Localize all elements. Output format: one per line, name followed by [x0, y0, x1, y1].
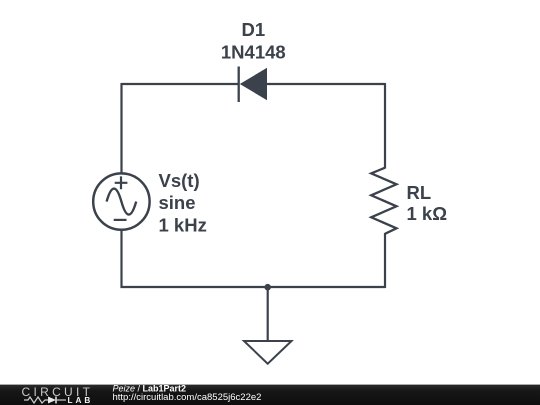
ground stem wire: [267, 287, 269, 341]
wire left vertical upper: [120, 83, 122, 173]
wire left vertical lower: [120, 230, 122, 288]
svg-text:Vs(t): Vs(t): [159, 170, 200, 191]
diode D1 cathode bar: [238, 67, 240, 103]
svg-text:1 kHz: 1 kHz: [159, 215, 207, 236]
wire top-right horizontal: [267, 83, 386, 85]
wire right vertical lower: [384, 233, 386, 288]
junction dot node: [264, 284, 271, 291]
svg-text:1N4148: 1N4148: [221, 42, 286, 63]
footer logo resistor zigzag: [24, 397, 48, 403]
wire top-left horizontal: [122, 83, 239, 85]
wire right vertical upper: [384, 83, 386, 169]
svg-text:D1: D1: [241, 19, 265, 40]
diode D1 triangle: [240, 68, 267, 100]
svg-text:sine: sine: [159, 192, 196, 213]
wire bottom horizontal: [121, 286, 386, 288]
svg-text:RL: RL: [407, 182, 432, 203]
voltage source V1 sine wave: [107, 189, 137, 215]
ground symbol triangle: [244, 341, 292, 364]
svg-text:1 kΩ: 1 kΩ: [407, 203, 448, 224]
footer logo diode symbol: [48, 397, 56, 404]
svg-text:http://circuitlab.com/ca8525j6: http://circuitlab.com/ca8525j6c22e2: [113, 392, 262, 403]
voltage source V1 minus sign: [114, 219, 127, 221]
voltage source V1 circle: [93, 173, 149, 229]
svg-text:LAB: LAB: [68, 396, 94, 405]
resistor RL zigzag: [371, 168, 396, 234]
voltage source V1 plus sign: [115, 176, 128, 189]
